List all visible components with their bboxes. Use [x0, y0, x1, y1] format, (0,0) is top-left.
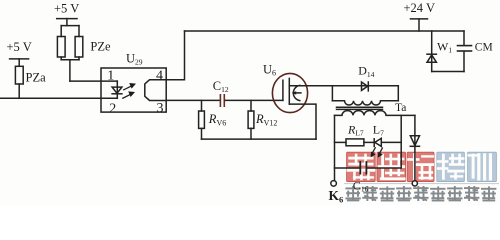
- transformer core: [337, 107, 383, 109]
- wire primary right: [397, 86, 399, 101]
- svg-text:1: 1: [107, 68, 114, 83]
- resistor RL7: [335, 139, 375, 146]
- capacitor C12: [220, 95, 224, 106]
- diode D14: [362, 82, 369, 91]
- watermark: [344, 152, 499, 201]
- wire top rail: [185, 30, 465, 32]
- svg-text:RV6: RV6: [208, 112, 226, 127]
- svg-text:2: 2: [109, 101, 116, 116]
- inductor Ta secondary: [335, 111, 415, 116]
- U6 body arc: [293, 85, 299, 100]
- svg-text:3: 3: [157, 101, 164, 116]
- wire PZe bottom to anode rail: [69, 60, 71, 81]
- power +24V: [411, 19, 428, 31]
- wire anode rail: [70, 80, 117, 82]
- wire right branch: [414, 115, 416, 181]
- wire W1/CM bottom: [432, 71, 464, 73]
- transistor U6 circle: [272, 73, 307, 112]
- U6 gate bar: [282, 80, 284, 100]
- resistor PZa: [15, 66, 23, 84]
- wire secondary left drop: [334, 115, 336, 180]
- wire primary left: [331, 86, 333, 101]
- power +5V (PZa branch): [10, 59, 29, 66]
- svg-text:PZe: PZe: [90, 39, 111, 53]
- terminal right: [412, 181, 417, 186]
- diode D right: [410, 136, 419, 147]
- U6 channel bar: [288, 78, 290, 104]
- svg-text:L7: L7: [373, 122, 384, 137]
- wire drain: [289, 85, 398, 87]
- wire C12 to gate: [225, 99, 283, 101]
- wire pin4 to top rail: [166, 31, 184, 80]
- wire pin3 to C12: [166, 99, 219, 101]
- LED inside U29: [112, 81, 122, 98]
- L7 emission arrows: [371, 148, 383, 158]
- wire CM branch: [463, 31, 465, 72]
- svg-text:W1: W1: [437, 40, 452, 55]
- U6 substrate arrow: [292, 91, 301, 94]
- wire W1 branch: [431, 31, 433, 72]
- LED emission arrows: [123, 83, 136, 98]
- svg-text:4: 4: [156, 68, 163, 83]
- inductor Ta primary: [332, 101, 398, 105]
- capacitor C16: [335, 162, 402, 174]
- svg-text:RV12: RV12: [255, 112, 277, 127]
- svg-text:D14: D14: [358, 64, 374, 79]
- photo-triac detector: [145, 80, 166, 101]
- svg-text:RL7: RL7: [347, 122, 364, 137]
- svg-text:+24 V: +24 V: [404, 1, 435, 15]
- wire bottom rail: [202, 138, 317, 140]
- svg-text:C12: C12: [213, 79, 229, 94]
- svg-text:K6: K6: [329, 188, 344, 204]
- wire PZe top node: [61, 25, 79, 27]
- svg-text:CM: CM: [475, 41, 493, 53]
- resistor PZe (parallel pair): [57, 26, 82, 60]
- diode W1: [427, 54, 436, 62]
- svg-text:U29: U29: [126, 52, 143, 67]
- wire source: [289, 104, 316, 139]
- svg-text:PZa: PZa: [26, 71, 47, 85]
- terminal K6 left: [331, 181, 337, 187]
- power +5V (PZe branch): [57, 19, 77, 26]
- resistor RV6: [199, 100, 205, 139]
- svg-text:Ta: Ta: [395, 102, 406, 114]
- svg-text:+5 V: +5 V: [54, 1, 79, 15]
- capacitor CM: [458, 46, 472, 51]
- LED L7: [374, 138, 401, 146]
- svg-text:+5 V: +5 V: [7, 40, 32, 54]
- wire cathode rail: [0, 97, 117, 99]
- wire loop right drop: [400, 115, 402, 168]
- resistor RV12: [248, 100, 254, 139]
- optocoupler U29: [101, 68, 166, 112]
- svg-text:U6: U6: [263, 62, 276, 77]
- wire PZa bottom: [18, 84, 20, 98]
